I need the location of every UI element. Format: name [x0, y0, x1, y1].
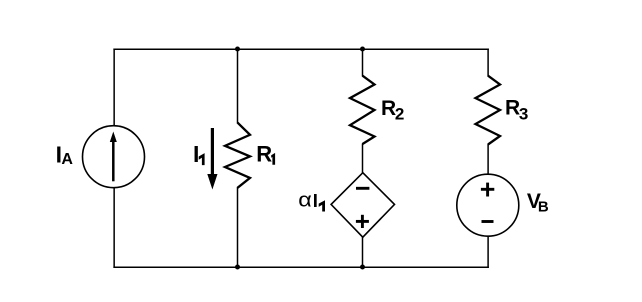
svg-text:I: I: [313, 190, 318, 211]
current source IA arrow: [110, 132, 117, 182]
resistor R3: [476, 76, 501, 145]
wire R1-branch bottom: [237, 187, 239, 268]
dependent source plus sign: [356, 215, 369, 228]
wire right upper: [487, 49, 489, 77]
wire top: [113, 48, 488, 50]
voltage source VB: [457, 174, 519, 236]
node bottom-left junction: [235, 265, 240, 270]
svg-text:I: I: [193, 141, 199, 167]
svg-text:R2: R2: [381, 97, 404, 124]
wire left lower: [113, 188, 115, 269]
node top-left junction: [235, 47, 240, 52]
svg-text:R: R: [256, 142, 272, 167]
voltage source VB plus sign: [481, 183, 494, 197]
wire R1-branch top: [237, 49, 239, 124]
node top-right junction: [360, 47, 365, 52]
svg-text:R3: R3: [505, 96, 528, 123]
wire R2-branch top: [362, 49, 364, 77]
svg-text:IA: IA: [56, 142, 74, 169]
resistor R1: [225, 123, 250, 188]
wire dependent source bottom: [362, 237, 364, 269]
wire R3 to VB: [487, 144, 489, 175]
svg-text:α: α: [298, 188, 312, 211]
dependent source alphaI1 diamond: [331, 173, 394, 238]
wire bottom: [113, 266, 488, 268]
wire left upper: [113, 49, 115, 127]
current source IA: [83, 126, 145, 188]
node bottom-right junction: [360, 265, 365, 270]
svg-text:VB: VB: [527, 190, 549, 216]
wire R2 to dependent source: [362, 144, 364, 174]
wire VB bottom: [487, 236, 489, 268]
voltage source VB minus sign: [482, 220, 494, 223]
current arrow I1: [207, 128, 217, 190]
dependent source minus sign: [356, 187, 369, 190]
resistor R2: [350, 76, 375, 144]
